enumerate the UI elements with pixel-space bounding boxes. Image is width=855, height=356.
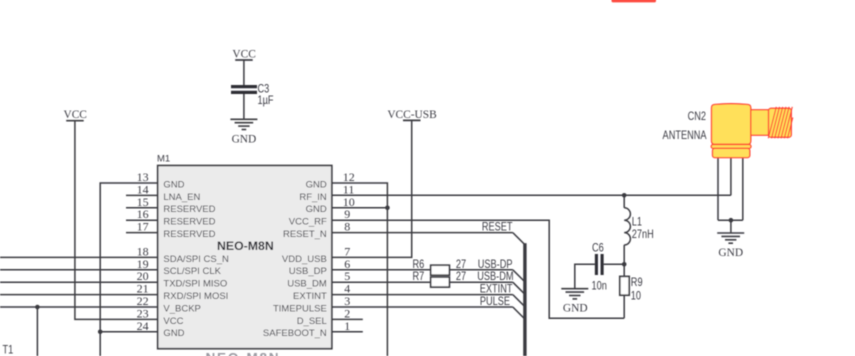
svg-text:SCL/SPI CLK: SCL/SPI CLK bbox=[163, 266, 221, 277]
svg-text:EXTINT: EXTINT bbox=[293, 291, 327, 302]
svg-text:LNA_EN: LNA_EN bbox=[163, 192, 200, 203]
svg-text:GND: GND bbox=[718, 246, 743, 259]
svg-text:PULSE: PULSE bbox=[480, 296, 510, 308]
svg-text:USB_DP: USB_DP bbox=[289, 266, 327, 277]
svg-text:D_SEL: D_SEL bbox=[297, 316, 327, 327]
svg-text:GND: GND bbox=[232, 132, 257, 145]
svg-text:RESET: RESET bbox=[482, 222, 513, 234]
svg-text:VCC-USB: VCC-USB bbox=[387, 108, 437, 121]
svg-text:RESERVED: RESERVED bbox=[163, 229, 215, 240]
svg-text:GND: GND bbox=[563, 301, 588, 314]
svg-text:C6: C6 bbox=[592, 242, 604, 254]
svg-text:GND: GND bbox=[306, 204, 327, 215]
svg-text:8: 8 bbox=[344, 220, 350, 234]
svg-text:VCC: VCC bbox=[163, 316, 183, 327]
svg-text:1: 1 bbox=[344, 319, 350, 333]
svg-text:VCC: VCC bbox=[63, 108, 87, 121]
svg-text:V_BCKP: V_BCKP bbox=[163, 303, 201, 314]
svg-text:CN2: CN2 bbox=[688, 111, 707, 123]
svg-text:SAFEBOOT_N: SAFEBOOT_N bbox=[263, 328, 327, 339]
svg-text:GND: GND bbox=[163, 179, 184, 190]
svg-text:VCC: VCC bbox=[232, 47, 256, 60]
svg-text:RESERVED: RESERVED bbox=[163, 217, 215, 228]
svg-text:R9: R9 bbox=[631, 277, 643, 289]
svg-text:27: 27 bbox=[456, 259, 466, 271]
svg-text:L1: L1 bbox=[632, 217, 642, 229]
svg-text:GND: GND bbox=[306, 179, 327, 190]
svg-text:27: 27 bbox=[456, 271, 466, 283]
svg-text:RESET_N: RESET_N bbox=[283, 229, 327, 240]
svg-text:RF_IN: RF_IN bbox=[299, 192, 327, 203]
svg-text:USB_DM: USB_DM bbox=[287, 279, 327, 290]
svg-text:NEO-M8N: NEO-M8N bbox=[217, 239, 274, 253]
svg-text:RXD/SPI MOSI: RXD/SPI MOSI bbox=[163, 291, 228, 302]
svg-text:1µF: 1µF bbox=[258, 95, 274, 107]
svg-text:EXTINT: EXTINT bbox=[480, 284, 513, 296]
svg-text:10n: 10n bbox=[592, 280, 608, 292]
svg-text:TXD/SPI MISO: TXD/SPI MISO bbox=[163, 279, 227, 290]
svg-text:T1: T1 bbox=[3, 345, 14, 356]
svg-text:M1: M1 bbox=[157, 154, 170, 165]
svg-text:SDA/SPI CS_N: SDA/SPI CS_N bbox=[163, 254, 229, 265]
svg-text:17: 17 bbox=[137, 220, 149, 234]
svg-text:R7: R7 bbox=[413, 271, 425, 283]
svg-text:R6: R6 bbox=[413, 259, 425, 271]
svg-text:USB-DM: USB-DM bbox=[477, 271, 513, 283]
svg-text:VCC_RF: VCC_RF bbox=[289, 217, 327, 228]
svg-text:GND: GND bbox=[163, 328, 184, 339]
svg-text:TIMEPULSE: TIMEPULSE bbox=[273, 303, 327, 314]
svg-text:ANTENNA: ANTENNA bbox=[663, 130, 707, 142]
svg-text:NEO-M8N: NEO-M8N bbox=[206, 351, 281, 356]
svg-text:24: 24 bbox=[137, 319, 149, 333]
svg-text:USB-DP: USB-DP bbox=[478, 259, 513, 271]
svg-text:27nH: 27nH bbox=[632, 229, 654, 241]
svg-text:RESERVED: RESERVED bbox=[163, 204, 215, 215]
svg-text:10: 10 bbox=[631, 290, 641, 302]
svg-text:VDD_USB: VDD_USB bbox=[282, 254, 327, 265]
